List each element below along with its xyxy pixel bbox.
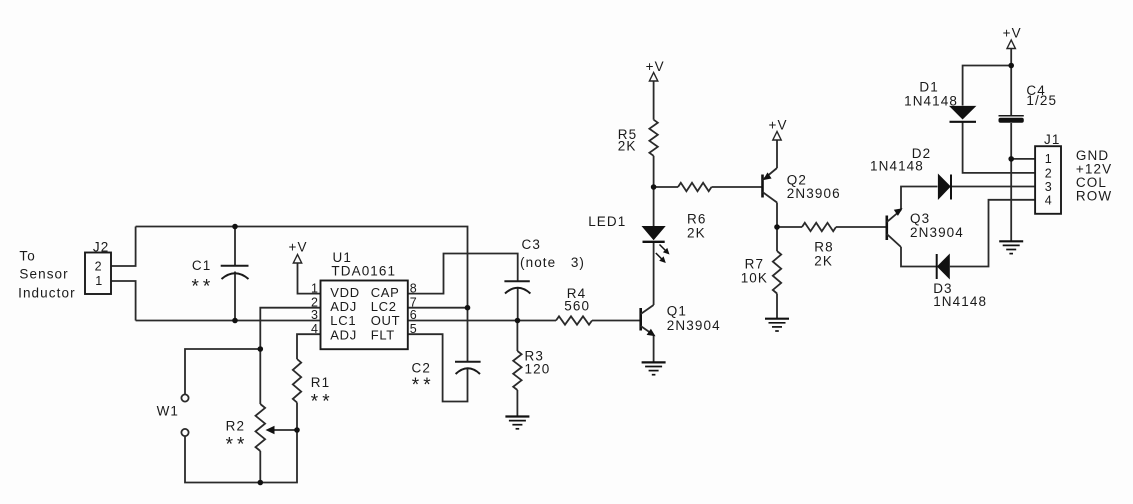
svg-text:120: 120 <box>525 362 551 377</box>
wire U1 pin2 ADJ down to R2 top junction <box>260 308 320 349</box>
wire D1 cathode to J1 pin2 +12V <box>963 123 1036 173</box>
svg-text:LC1: LC1 <box>330 313 356 328</box>
wire GND node down to ground <box>1010 159 1012 241</box>
resistor R7 <box>773 251 781 294</box>
wire C1 bottom lead <box>234 272 236 321</box>
svg-text:2: 2 <box>95 260 102 274</box>
svg-text:1: 1 <box>311 281 318 295</box>
wire node to C4 top <box>1010 66 1012 116</box>
wire D2 cathode to J1 pin3 COL <box>951 186 1035 188</box>
wire J2 pin2 to riser <box>111 227 136 267</box>
svg-text:Inductor: Inductor <box>18 286 76 301</box>
wire C2 bottom to U1 pin5 FLT <box>408 334 468 401</box>
svg-text:TDA0161: TDA0161 <box>331 263 396 278</box>
wire U1 pin8 CAP to C3 top <box>408 254 518 294</box>
wire Q2 collector to junction <box>776 203 778 228</box>
svg-text:OUT: OUT <box>371 313 401 328</box>
svg-text:**: ** <box>311 392 334 413</box>
potentiometer R2 <box>256 404 266 451</box>
wire junction to W1 top <box>185 349 260 394</box>
capacitor C3 <box>504 281 530 293</box>
svg-text:Q3: Q3 <box>910 211 930 226</box>
svg-text:1N4148: 1N4148 <box>904 93 958 108</box>
svg-text:4: 4 <box>1045 194 1052 208</box>
svg-text:ADJ: ADJ <box>330 327 357 342</box>
capacitor C1 <box>221 266 249 279</box>
node C1 top rail <box>232 224 238 230</box>
power +V above U1 <box>293 255 301 264</box>
svg-text:**: ** <box>412 375 435 396</box>
svg-text:R8: R8 <box>814 240 833 255</box>
transistor Q2 2N3906 <box>763 168 778 203</box>
wire R2 wiper arm <box>268 429 297 431</box>
wire top rail to LC2 riser <box>136 227 468 362</box>
svg-text:3: 3 <box>311 308 318 322</box>
resistor R8 <box>802 223 836 231</box>
svg-text:LED1: LED1 <box>588 214 626 229</box>
node R2 bottom <box>258 480 264 486</box>
wire U1 pin7 LC2 stub <box>408 307 468 309</box>
wire +V to Q2 emitter <box>776 140 778 168</box>
svg-text:2K: 2K <box>687 226 706 241</box>
wire node to R6 <box>654 186 678 188</box>
svg-text:(note 3): (note 3) <box>520 255 585 270</box>
power +V above R5 <box>649 73 657 82</box>
node ADJ W1 R2 <box>258 346 264 352</box>
svg-text:FLT: FLT <box>371 327 395 342</box>
svg-text:**: ** <box>192 276 215 297</box>
wire LED1 cathode to Q1 collector <box>653 243 655 306</box>
wire Q1 emitter to ground <box>653 335 655 362</box>
svg-text:To: To <box>19 248 35 263</box>
svg-text:R6: R6 <box>687 212 706 227</box>
svg-text:+V: +V <box>646 59 665 74</box>
node R5 R6 LED1 <box>651 184 657 190</box>
svg-text:1: 1 <box>95 274 102 288</box>
svg-text:R1: R1 <box>311 375 330 390</box>
wire bottom rail to U1 pin3 LC1 <box>136 320 321 322</box>
svg-text:W1: W1 <box>157 404 179 419</box>
wire R7 bottom to ground <box>776 294 778 319</box>
svg-text:560: 560 <box>564 298 590 313</box>
svg-text:ADJ: ADJ <box>330 299 357 314</box>
wire U1 pin1 VDD to +V <box>298 263 321 294</box>
wire C3 bottom lead <box>517 288 519 321</box>
resistor R4 <box>556 316 592 324</box>
svg-text:4: 4 <box>311 322 318 336</box>
svg-text:LC2: LC2 <box>371 299 397 314</box>
svg-text:8: 8 <box>410 281 417 295</box>
diode D3 1N4148 <box>937 254 950 280</box>
wire R3 top lead <box>516 321 518 352</box>
wire node to LED1 anode <box>653 187 655 226</box>
svg-text:2: 2 <box>1045 167 1052 181</box>
svg-text:2K: 2K <box>814 254 833 269</box>
svg-text:Q1: Q1 <box>667 304 687 319</box>
wire R3 bottom to ground <box>516 390 518 416</box>
node R1 wiper <box>294 427 300 433</box>
wire J2 pin1 to bottom rail <box>111 281 136 321</box>
resistor R5 <box>649 120 657 156</box>
op-amp U1 TDA0161 body <box>321 281 408 350</box>
svg-text:J2: J2 <box>93 239 109 254</box>
svg-text:2N3906: 2N3906 <box>787 186 841 201</box>
wire GND node to J1 pin1 <box>1011 158 1035 160</box>
svg-text:1: 1 <box>1045 152 1052 166</box>
wire +V node down <box>1010 49 1012 66</box>
wire R2 top lead <box>259 349 261 404</box>
wire C1 top lead <box>234 227 236 266</box>
svg-text:6: 6 <box>410 308 417 322</box>
svg-text:1N4148: 1N4148 <box>870 158 924 173</box>
wire C4 bottom to GND node <box>1010 123 1012 159</box>
svg-text:2K: 2K <box>618 138 637 153</box>
svg-text:J1: J1 <box>1044 132 1060 147</box>
transistor Q1 2N3904 <box>641 305 656 336</box>
node OUT C3 R3 <box>515 318 521 324</box>
wire R6 to Q2 base <box>712 186 762 188</box>
svg-text:CAP: CAP <box>371 285 400 300</box>
wire Q3 emitter riser to D2 line <box>901 187 938 210</box>
wire U1 pin4 ADJ to R1 top <box>297 334 321 359</box>
svg-text:C3: C3 <box>522 237 541 252</box>
svg-text:2N3904: 2N3904 <box>667 318 721 333</box>
svg-text:Sensor: Sensor <box>19 266 68 281</box>
node C4 J1 pin1 GND <box>1008 156 1014 162</box>
wire R8 to Q3 base <box>836 226 886 228</box>
svg-text:2N3904: 2N3904 <box>910 225 964 240</box>
svg-text:VDD: VDD <box>330 285 360 300</box>
wire +V to R5 top <box>653 81 655 120</box>
wire R4 to Q1 base <box>592 320 640 322</box>
svg-text:R2: R2 <box>226 418 245 433</box>
svg-text:C1: C1 <box>192 258 211 273</box>
node +V D1 C4 <box>1008 63 1014 69</box>
svg-text:5: 5 <box>410 322 417 336</box>
capacitor C4 polarized <box>999 116 1024 123</box>
node C1 bottom rail <box>232 318 238 324</box>
svg-text:1/25: 1/25 <box>1026 93 1057 108</box>
capacitor C2 <box>455 362 481 374</box>
jumper W1 terminal top <box>181 394 188 401</box>
wire R2 bottom lead <box>259 451 261 483</box>
diode D1 1N4148 <box>949 106 976 122</box>
wire D3 anode to J1 pin4 ROW <box>950 200 1035 267</box>
wire Q3 collector drop to D3 line <box>901 247 937 267</box>
resistor R6 <box>678 183 712 191</box>
ground below R3 <box>505 417 529 429</box>
svg-text:+V: +V <box>289 240 308 255</box>
potentiometer R2 wiper arrow <box>266 426 275 434</box>
ground below R7 <box>765 319 789 331</box>
wire R5 bottom to collector node <box>653 156 655 187</box>
svg-text:Q2: Q2 <box>787 172 807 187</box>
power +V above D1 C4 <box>1007 40 1015 49</box>
resistor R1 <box>293 359 301 403</box>
diode D2 1N4148 <box>938 174 951 201</box>
svg-text:+V: +V <box>1003 26 1022 41</box>
node Q2 collector R7 R8 <box>774 224 780 230</box>
wire node to D1 anode <box>963 66 1012 106</box>
wire R7 top lead <box>776 227 778 251</box>
svg-text:ROW: ROW <box>1076 188 1112 203</box>
transistor Q3 2N3904 <box>887 208 903 247</box>
wire U1 pin6 OUT to R4 <box>408 320 556 322</box>
resistor R3 <box>513 351 521 390</box>
node LC2 riser <box>465 305 471 311</box>
connector J1 <box>1035 146 1061 214</box>
svg-text:D1: D1 <box>919 80 938 95</box>
ground below J1 <box>999 241 1023 253</box>
power +V above Q2 <box>773 132 781 141</box>
svg-text:10K: 10K <box>741 270 768 285</box>
jumper W1 terminal bottom <box>181 429 188 436</box>
LED LED1 <box>642 226 670 263</box>
svg-text:C2: C2 <box>412 361 431 376</box>
wire junction to R8 <box>777 226 802 228</box>
svg-text:1N4148: 1N4148 <box>933 294 987 309</box>
ground below Q1 <box>642 362 666 374</box>
wire W1 bottom to bottom loop <box>185 430 297 483</box>
wire R1 bottom to wiper junction <box>296 403 298 431</box>
connector J2 <box>85 253 111 295</box>
svg-text:**: ** <box>226 435 249 456</box>
svg-text:3: 3 <box>1045 180 1052 194</box>
svg-text:+V: +V <box>769 118 788 133</box>
svg-text:R7: R7 <box>745 257 764 272</box>
